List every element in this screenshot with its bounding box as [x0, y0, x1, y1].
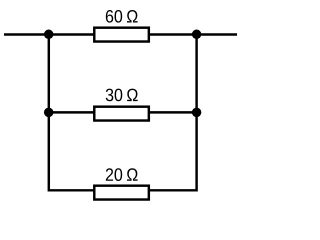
wire middle branch horizontal [49, 111, 197, 113]
node junction dot middle-right [192, 108, 202, 118]
wire top rail [4, 33, 237, 35]
wire right branch vertical [195, 33, 197, 191]
value label 30 ohm (R2) [106, 89, 138, 102]
value label 20 ohm (R3) [106, 168, 138, 181]
resistor R1 60 ohm body [94, 28, 149, 42]
resistor R2 30 ohm body [94, 107, 149, 121]
resistor R3 20 ohm body [94, 186, 149, 200]
node junction dot middle-left [44, 108, 54, 118]
node junction dot top-left [44, 30, 54, 40]
node junction dot top-right [192, 30, 202, 40]
wire left branch vertical [48, 33, 50, 191]
wire bottom branch horizontal [49, 189, 197, 191]
value label 60 ohm (R1) [106, 10, 138, 23]
